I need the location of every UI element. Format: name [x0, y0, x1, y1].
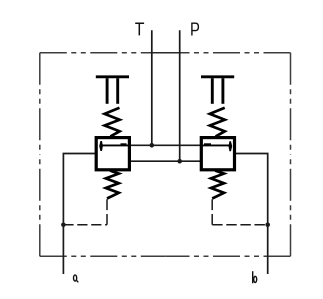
- label a: [74, 275, 79, 282]
- spring V1 lower: [106, 171, 119, 199]
- wire upper gallery (T) between valves: [130, 144, 202, 146]
- tank vent symbol V1: [96, 77, 129, 104]
- port line P: [179, 30, 181, 161]
- junction T-gallery: [150, 143, 155, 148]
- relief valve V2 body: [201, 138, 234, 170]
- wire port a branch: [63, 154, 96, 275]
- label b: [253, 271, 257, 283]
- spring V2 lower: [211, 171, 224, 199]
- junction P-gallery: [177, 159, 182, 164]
- junction pilot-b: [265, 223, 270, 228]
- pilot line V1 vertical (dashed): [106, 199, 108, 225]
- relief valve V1 body: [96, 138, 129, 170]
- label P: [192, 23, 199, 35]
- junction pilot-a: [61, 223, 66, 228]
- pilot line V2 horizontal (dashed): [212, 224, 268, 226]
- enclosure boundary (phantom line): [40, 53, 291, 257]
- tank vent symbol V2: [201, 77, 234, 104]
- relief valve V1 flow arrow: [99, 141, 129, 151]
- relief valve V2 flow arrow: [201, 141, 232, 151]
- pilot line V1 horizontal (dashed): [63, 224, 107, 226]
- pilot line V2 vertical (dashed): [211, 199, 213, 225]
- wire port b branch: [235, 154, 268, 275]
- label T: [135, 23, 144, 35]
- wire lower gallery (P) between valves: [130, 160, 202, 162]
- wire T-P tie on boundary: [152, 52, 180, 54]
- port line T: [151, 30, 153, 145]
- spring V2 upper: [210, 108, 225, 137]
- spring V1 upper: [105, 108, 120, 137]
